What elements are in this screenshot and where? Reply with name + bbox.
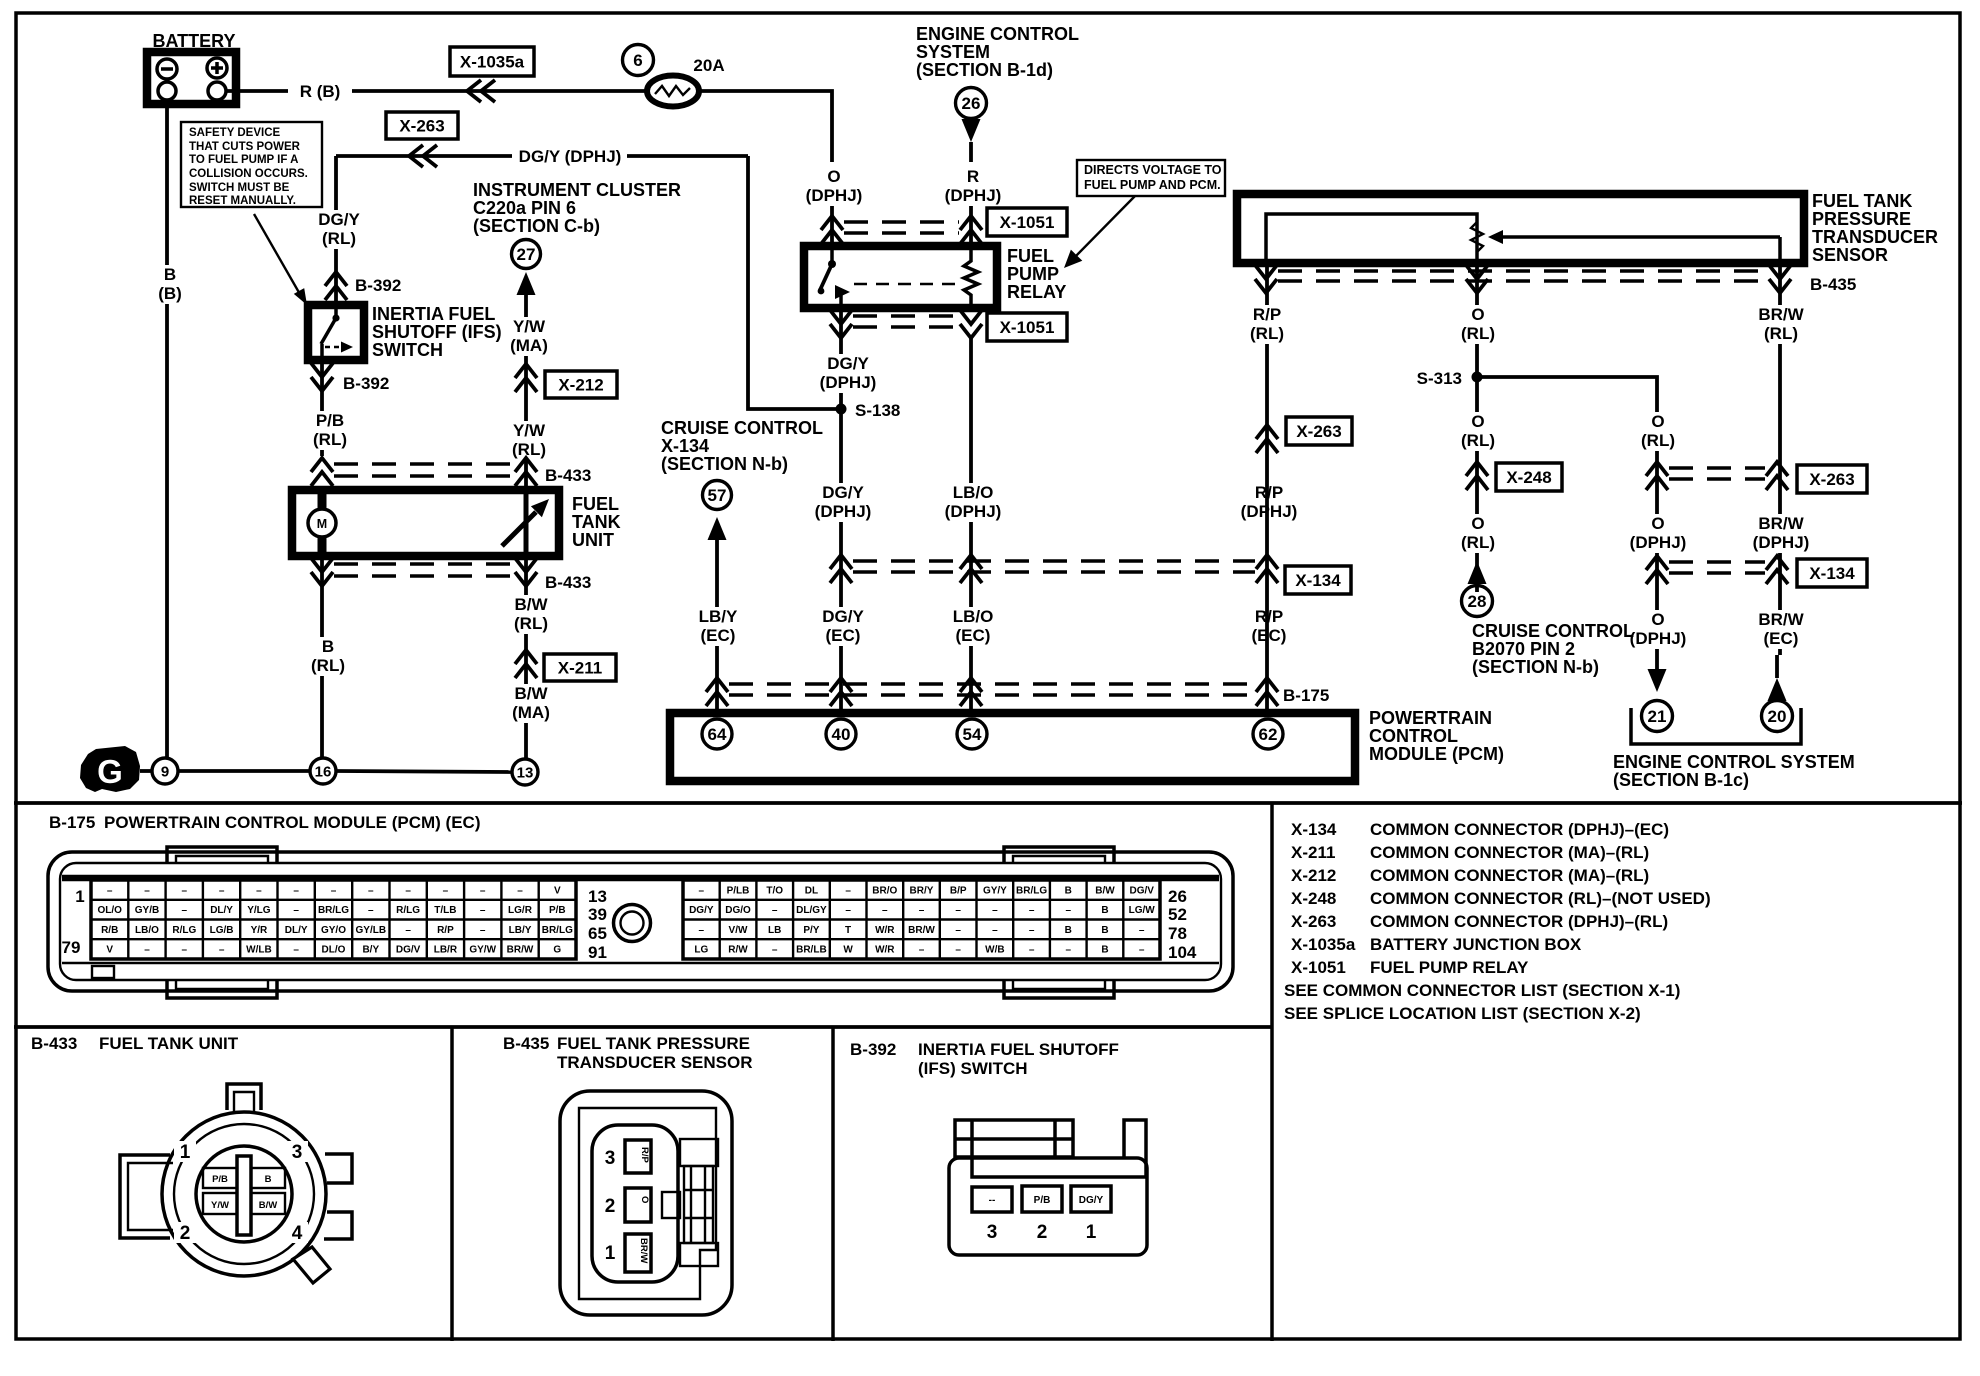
svg-text:–: – xyxy=(772,945,778,956)
svg-text:Y/W: Y/W xyxy=(513,421,546,440)
connector X-134 dashes xyxy=(853,559,1255,562)
svg-text:DL/GY: DL/GY xyxy=(796,905,827,916)
connector label X-212 xyxy=(545,371,617,398)
svg-text:B-435: B-435 xyxy=(503,1034,549,1053)
svg-text:X-134: X-134 xyxy=(1291,820,1337,839)
svg-text:(RL): (RL) xyxy=(1250,324,1284,343)
B-435 pin 3 R/P xyxy=(625,1140,651,1173)
svg-text:–: – xyxy=(845,885,851,896)
svg-text:Y/R: Y/R xyxy=(251,925,268,936)
svg-text:52: 52 xyxy=(1168,905,1187,924)
svg-text:W: W xyxy=(843,945,853,956)
svg-text:X-248: X-248 xyxy=(1291,889,1336,908)
label O (RL) col I xyxy=(1634,412,1681,451)
svg-text:X-263: X-263 xyxy=(1296,422,1341,441)
svg-text:B/Y: B/Y xyxy=(362,945,379,956)
svg-text:–: – xyxy=(1029,905,1035,916)
svg-text:X-1035a: X-1035a xyxy=(1291,935,1356,954)
svg-text:LB: LB xyxy=(768,925,781,936)
svg-text:B-433: B-433 xyxy=(31,1034,77,1053)
svg-text:1: 1 xyxy=(605,1243,616,1264)
connector B-433 upper dashes xyxy=(334,462,514,465)
svg-text:(DPHJ): (DPHJ) xyxy=(806,186,863,205)
svg-text:–: – xyxy=(293,945,299,956)
svg-text:3: 3 xyxy=(292,1142,303,1163)
svg-text:–: – xyxy=(992,925,998,936)
note directs voltage xyxy=(1077,160,1225,196)
connector label X-1051 upper xyxy=(987,208,1067,236)
svg-text:LB/O: LB/O xyxy=(953,607,994,626)
svg-text:G: G xyxy=(97,753,123,790)
svg-text:DG/Y (DPHJ): DG/Y (DPHJ) xyxy=(519,147,622,166)
svg-text:(DPHJ): (DPHJ) xyxy=(820,373,877,392)
connector X-263 right chevrons xyxy=(1646,462,1668,490)
connector label X-248 xyxy=(1496,463,1562,491)
PCM connector top tab right xyxy=(1004,847,1114,864)
svg-text:B/W: B/W xyxy=(514,595,548,614)
svg-text:B-392: B-392 xyxy=(343,374,389,393)
svg-text:DG/V: DG/V xyxy=(396,945,421,956)
svg-text:R/P: R/P xyxy=(1255,483,1283,502)
svg-text:RELAY: RELAY xyxy=(1007,282,1066,302)
svg-text:65: 65 xyxy=(588,924,607,943)
svg-text:Y/W: Y/W xyxy=(513,317,546,336)
svg-text:O: O xyxy=(1471,412,1484,431)
svg-text:FUEL PUMP RELAY: FUEL PUMP RELAY xyxy=(1370,958,1529,977)
svg-text:X-212: X-212 xyxy=(558,376,603,395)
arrow note to IFS switch xyxy=(254,214,301,296)
connector B-435 dashes xyxy=(1278,269,1766,272)
svg-text:(DPHJ): (DPHJ) xyxy=(1753,533,1810,552)
svg-text:SWITCH MUST BE: SWITCH MUST BE xyxy=(189,182,290,194)
svg-text:R/LG: R/LG xyxy=(396,905,420,916)
svg-text:13: 13 xyxy=(588,887,607,906)
label Y/W (MA) xyxy=(505,317,552,356)
svg-text:(EC): (EC) xyxy=(701,626,736,645)
svg-text:SHUTOFF (IFS): SHUTOFF (IFS) xyxy=(372,322,502,342)
svg-text:V/W: V/W xyxy=(729,925,748,936)
connector chevrons below relay xyxy=(830,310,852,338)
B-435 pin 1 BR/W xyxy=(625,1234,651,1272)
connector X-1051 lower dashes xyxy=(853,314,959,317)
svg-text:X-134: X-134 xyxy=(1809,564,1855,583)
svg-text:TANK: TANK xyxy=(572,512,621,532)
svg-text:LG/R: LG/R xyxy=(508,905,533,916)
label BR/W (EC) xyxy=(1757,610,1804,649)
svg-text:LG/B: LG/B xyxy=(210,925,234,936)
PCM connector small notch xyxy=(92,966,114,978)
svg-text:DG/Y: DG/Y xyxy=(827,354,869,373)
svg-text:(RL): (RL) xyxy=(1641,431,1675,450)
svg-text:--: -- xyxy=(989,1195,996,1206)
svg-text:V: V xyxy=(106,945,113,956)
arrow from 26 down xyxy=(962,119,981,142)
label DG/Y (EC) xyxy=(819,607,866,646)
B-433 right tab lower xyxy=(324,1212,352,1239)
svg-text:(EC): (EC) xyxy=(826,626,861,645)
svg-text:INSTRUMENT CLUSTER: INSTRUMENT CLUSTER xyxy=(473,180,681,200)
svg-text:B-175: B-175 xyxy=(49,813,95,832)
svg-text:MODULE (PCM): MODULE (PCM) xyxy=(1369,744,1504,764)
PCM connector bottom tab left xyxy=(167,980,277,998)
pin circle 57 xyxy=(703,481,732,510)
label DG/Y (DPHJ) upper xyxy=(814,354,881,393)
svg-text:SAFETY DEVICE: SAFETY DEVICE xyxy=(189,127,280,139)
connector label X-134 right xyxy=(1797,559,1867,587)
label P/B (RL) xyxy=(306,411,353,450)
svg-text:GY/LB: GY/LB xyxy=(356,925,387,936)
ground pin 9 xyxy=(152,758,178,784)
svg-text:–: – xyxy=(293,885,299,896)
inertia fuel shutoff (IFS) switch xyxy=(308,305,364,360)
svg-text:20A: 20A xyxy=(693,56,724,75)
svg-text:BR/W: BR/W xyxy=(638,1238,649,1263)
divider vertical B-435/B-392 xyxy=(831,1027,835,1341)
label LB/O (DPHJ) xyxy=(939,483,1006,522)
svg-text:B: B xyxy=(322,637,334,656)
wire R/P sensor to PCM xyxy=(1265,263,1269,713)
svg-text:–: – xyxy=(293,905,299,916)
svg-text:X-263: X-263 xyxy=(1809,470,1854,489)
connector X-134 right dashes xyxy=(1669,560,1765,563)
label O (DPHJ) col I low xyxy=(1624,610,1691,649)
svg-text:B: B xyxy=(1065,925,1072,936)
svg-text:SYSTEM: SYSTEM xyxy=(916,42,990,62)
ground bus wire 16-13 xyxy=(336,771,512,772)
fuel tank pressure transducer sensor box xyxy=(1237,194,1804,263)
svg-text:–: – xyxy=(955,905,961,916)
label R/P (EC) xyxy=(1245,607,1292,646)
svg-text:–: – xyxy=(144,885,150,896)
svg-text:64: 64 xyxy=(708,725,727,744)
connector B-433 lower chevrons + dashes xyxy=(311,558,333,586)
splice S-313 xyxy=(1472,372,1483,383)
fuel level sensor arrow xyxy=(502,512,536,546)
svg-text:RESET MANUALLY.: RESET MANUALLY. xyxy=(189,195,296,207)
pin circle 62 xyxy=(1253,719,1283,749)
svg-text:(DPHJ): (DPHJ) xyxy=(1630,533,1687,552)
svg-text:(RL): (RL) xyxy=(1461,533,1495,552)
svg-text:R/P: R/P xyxy=(639,1147,650,1164)
svg-text:X-134: X-134 xyxy=(661,436,709,456)
B-392 pin 3 xyxy=(972,1187,1012,1212)
ground G symbol xyxy=(80,746,140,792)
B-392 top latch xyxy=(955,1120,1073,1157)
connector B-392 lower chevrons xyxy=(320,360,324,456)
pin circle 64 xyxy=(702,719,732,749)
svg-text:28: 28 xyxy=(1468,592,1487,611)
wire R (B) battery to fuse xyxy=(226,89,647,93)
svg-text:P/B: P/B xyxy=(212,1174,228,1185)
svg-text:(RL): (RL) xyxy=(322,229,356,248)
connector B-392 upper chevrons xyxy=(325,272,347,300)
pin circle 54 xyxy=(957,719,987,749)
svg-text:LB/O: LB/O xyxy=(135,925,159,936)
B-435 pin 2 O xyxy=(625,1188,651,1222)
svg-text:B/W: B/W xyxy=(1095,885,1115,896)
svg-text:–: – xyxy=(1029,925,1035,936)
svg-text:LG: LG xyxy=(694,945,708,956)
wire G to 9 xyxy=(140,769,152,773)
svg-text:M: M xyxy=(317,517,327,531)
svg-text:B2070 PIN 2: B2070 PIN 2 xyxy=(1472,639,1575,659)
svg-text:P/B: P/B xyxy=(316,411,344,430)
svg-text:–: – xyxy=(256,885,262,896)
svg-text:–: – xyxy=(219,945,225,956)
svg-text:BR/W: BR/W xyxy=(1758,514,1804,533)
svg-text:T: T xyxy=(845,925,851,936)
svg-text:DG/V: DG/V xyxy=(1129,885,1154,896)
arrow to 27 xyxy=(517,272,536,295)
svg-text:–: – xyxy=(955,945,961,956)
svg-text:–: – xyxy=(480,885,486,896)
svg-text:(SECTION C-b): (SECTION C-b) xyxy=(473,216,600,236)
ground pin 16 xyxy=(310,758,336,784)
svg-text:(RL): (RL) xyxy=(311,656,345,675)
svg-text:DG/O: DG/O xyxy=(725,905,751,916)
svg-text:104: 104 xyxy=(1168,943,1197,962)
svg-text:(SECTION N-b): (SECTION N-b) xyxy=(661,454,788,474)
svg-text:DL/O: DL/O xyxy=(322,945,346,956)
connector B-175 dashes xyxy=(729,682,1255,685)
svg-text:COMMON CONNECTOR (DPHJ)–(RL): COMMON CONNECTOR (DPHJ)–(RL) xyxy=(1370,912,1668,931)
svg-text:62: 62 xyxy=(1259,725,1278,744)
svg-text:(RL): (RL) xyxy=(512,440,546,459)
svg-text:DG/Y: DG/Y xyxy=(689,905,714,916)
wire S-313 branch xyxy=(1477,377,1657,676)
svg-text:PRESSURE: PRESSURE xyxy=(1812,209,1911,229)
svg-text:(B): (B) xyxy=(158,284,182,303)
svg-text:O: O xyxy=(1471,514,1484,533)
arrow to 21 xyxy=(1648,669,1667,692)
svg-text:LB/Y: LB/Y xyxy=(699,607,738,626)
svg-text:–: – xyxy=(699,885,705,896)
svg-text:X-263: X-263 xyxy=(399,117,444,136)
svg-text:COMMON CONNECTOR (MA)–(RL): COMMON CONNECTOR (MA)–(RL) xyxy=(1370,843,1649,862)
connector label X-1051 lower xyxy=(987,313,1067,341)
svg-text:UNIT: UNIT xyxy=(572,530,614,550)
svg-text:3: 3 xyxy=(987,1222,998,1243)
svg-text:(SECTION B-1d): (SECTION B-1d) xyxy=(916,60,1053,80)
ground pin 13 xyxy=(512,759,538,785)
wire B (B) battery down xyxy=(165,104,169,758)
fuel tank unit xyxy=(292,490,559,556)
svg-text:COLLISION OCCURS.: COLLISION OCCURS. xyxy=(189,168,308,180)
svg-text:B: B xyxy=(1101,945,1108,956)
label O (DPHJ) col I xyxy=(1624,514,1691,553)
divider horizontal schematic/detail xyxy=(14,801,1962,805)
connector B-433 upper chevrons left xyxy=(311,458,333,486)
svg-text:(EC): (EC) xyxy=(1764,629,1799,648)
fuel pump relay box xyxy=(804,246,997,308)
svg-text:–: – xyxy=(219,885,225,896)
svg-text:FUEL: FUEL xyxy=(572,494,619,514)
connector X-1051 upper dashes xyxy=(844,220,959,223)
svg-text:–: – xyxy=(772,905,778,916)
svg-text:W/B: W/B xyxy=(985,945,1004,956)
connector X-134 right chevrons xyxy=(1646,556,1668,584)
wire DG/Y below relay xyxy=(839,310,843,713)
svg-text:BR/LG: BR/LG xyxy=(542,925,573,936)
svg-text:Y/LG: Y/LG xyxy=(247,905,271,916)
svg-text:–: – xyxy=(1066,905,1072,916)
svg-text:–: – xyxy=(480,905,486,916)
svg-text:ENGINE CONTROL SYSTEM: ENGINE CONTROL SYSTEM xyxy=(1613,752,1855,772)
label DG/Y (DPHJ) xyxy=(809,483,876,522)
PCM connector shell xyxy=(48,852,1233,991)
svg-text:DL/Y: DL/Y xyxy=(285,925,308,936)
svg-text:X-134: X-134 xyxy=(1295,571,1341,590)
svg-text:–: – xyxy=(955,925,961,936)
svg-text:(MA): (MA) xyxy=(510,336,548,355)
svg-text:THAT CUTS POWER: THAT CUTS POWER xyxy=(189,141,301,153)
svg-text:X-1051: X-1051 xyxy=(1000,318,1055,337)
svg-text:–: – xyxy=(405,925,411,936)
svg-text:INERTIA FUEL: INERTIA FUEL xyxy=(372,304,495,324)
svg-text:POWERTRAIN CONTROL MODULE (PCM: POWERTRAIN CONTROL MODULE (PCM) (EC) xyxy=(104,813,481,832)
svg-text:BATTERY JUNCTION BOX: BATTERY JUNCTION BOX xyxy=(1370,935,1582,954)
svg-text:FUEL TANK UNIT: FUEL TANK UNIT xyxy=(99,1034,239,1053)
powertrain control module box xyxy=(670,713,1355,781)
svg-text:20: 20 xyxy=(1768,707,1787,726)
B-392 right hook xyxy=(972,1120,1146,1177)
connector X-212 chevrons xyxy=(515,364,537,392)
pin circle 27 xyxy=(512,240,541,269)
svg-text:O: O xyxy=(639,1196,650,1203)
svg-text:COMMON CONNECTOR (MA)–(RL): COMMON CONNECTOR (MA)–(RL) xyxy=(1370,866,1649,885)
svg-text:(DPHJ): (DPHJ) xyxy=(945,186,1002,205)
svg-text:–: – xyxy=(882,905,888,916)
svg-text:39: 39 xyxy=(588,905,607,924)
svg-text:2: 2 xyxy=(180,1223,191,1244)
svg-text:OL/O: OL/O xyxy=(97,905,122,916)
svg-text:DL: DL xyxy=(805,885,818,896)
svg-text:(EC): (EC) xyxy=(1252,626,1287,645)
svg-text:BR/W: BR/W xyxy=(507,945,534,956)
svg-text:–: – xyxy=(182,905,188,916)
svg-text:GY/B: GY/B xyxy=(135,905,159,916)
svg-text:–: – xyxy=(699,925,705,936)
svg-text:26: 26 xyxy=(962,94,981,113)
B-435 latch detail xyxy=(680,1139,718,1166)
arrow note to relay xyxy=(1072,196,1135,260)
pin circle 20 xyxy=(1762,701,1793,732)
svg-text:X-1051: X-1051 xyxy=(1291,958,1346,977)
PCM connector band lines xyxy=(62,875,1219,882)
svg-text:(SECTION B-1c): (SECTION B-1c) xyxy=(1613,770,1749,790)
B-392 pin 1 DG/Y xyxy=(1071,1186,1111,1212)
svg-text:–: – xyxy=(1139,945,1145,956)
connector X-263 chevrons xyxy=(409,145,437,167)
svg-text:–: – xyxy=(480,925,486,936)
label LB/Y (EC) xyxy=(694,607,741,646)
svg-text:R/P: R/P xyxy=(1253,305,1281,324)
svg-text:(IFS) SWITCH: (IFS) SWITCH xyxy=(918,1059,1028,1078)
svg-text:G: G xyxy=(553,945,561,956)
PCM pin table left xyxy=(91,880,576,959)
svg-text:(EC): (EC) xyxy=(956,626,991,645)
svg-text:1: 1 xyxy=(180,1142,191,1163)
B-433 bottom-right notch xyxy=(293,1247,330,1283)
PCM connector bottom tab right xyxy=(1004,980,1114,998)
wire DG/Y branch to S-138 xyxy=(748,156,836,409)
svg-text:(RL): (RL) xyxy=(1764,324,1798,343)
connector label X-263 right xyxy=(1797,465,1867,493)
svg-text:B/W: B/W xyxy=(259,1200,278,1211)
svg-text:INERTIA FUEL SHUTOFF: INERTIA FUEL SHUTOFF xyxy=(918,1040,1119,1059)
label O (RL) sensor middle xyxy=(1475,265,1479,592)
pin circle 40 xyxy=(826,719,856,749)
bracket under 21/20 xyxy=(1631,708,1801,744)
svg-text:B: B xyxy=(1101,905,1108,916)
wire DG/Y (RL) xyxy=(334,156,338,305)
svg-text:X-1051: X-1051 xyxy=(1000,213,1055,232)
svg-text:BR/O: BR/O xyxy=(872,885,897,896)
svg-text:CRUISE CONTROL: CRUISE CONTROL xyxy=(1472,621,1634,641)
svg-text:B-433: B-433 xyxy=(545,573,591,592)
svg-text:1: 1 xyxy=(75,887,84,906)
svg-text:BR/LG: BR/LG xyxy=(1016,885,1047,896)
ground bus wire 9-16 xyxy=(178,769,310,773)
svg-text:TRANSDUCER: TRANSDUCER xyxy=(1812,227,1938,247)
svg-text:GY/W: GY/W xyxy=(469,945,496,956)
svg-text:FUEL: FUEL xyxy=(1007,246,1054,266)
connector X-211 chevrons xyxy=(515,650,537,678)
label BR/W (RL) xyxy=(1778,265,1782,655)
PCM pin table right xyxy=(683,880,1160,959)
svg-text:3: 3 xyxy=(605,1148,616,1169)
svg-text:–: – xyxy=(1066,945,1072,956)
svg-text:–: – xyxy=(182,945,188,956)
svg-text:1: 1 xyxy=(1086,1222,1097,1243)
svg-text:X-211: X-211 xyxy=(1291,843,1335,862)
label LB/O (EC) xyxy=(949,607,996,646)
wire DG/Y (DPHJ) horizontal xyxy=(336,154,748,158)
svg-text:P/Y: P/Y xyxy=(803,925,819,936)
svg-text:ENGINE CONTROL: ENGINE CONTROL xyxy=(916,24,1079,44)
label R/P (RL) xyxy=(1243,305,1290,344)
B-433 pin B xyxy=(251,1168,285,1188)
svg-text:57: 57 xyxy=(708,486,727,505)
wire LB/O below relay xyxy=(969,338,973,713)
pin circle 26 xyxy=(956,88,987,119)
svg-text:POWERTRAIN: POWERTRAIN xyxy=(1369,708,1492,728)
svg-text:21: 21 xyxy=(1648,707,1667,726)
svg-text:91: 91 xyxy=(588,943,607,962)
label R (DPHJ) xyxy=(939,167,1006,206)
connector X-263 right dashes xyxy=(1669,466,1765,469)
B-433 pin Y/W xyxy=(203,1193,237,1214)
svg-text:–: – xyxy=(107,885,113,896)
svg-text:(RL): (RL) xyxy=(514,614,548,633)
svg-text:T/LB: T/LB xyxy=(434,905,456,916)
svg-text:BR/Y: BR/Y xyxy=(910,885,934,896)
svg-text:W/LB: W/LB xyxy=(246,945,272,956)
svg-text:BR/W: BR/W xyxy=(1758,305,1804,324)
svg-text:B-392: B-392 xyxy=(355,276,401,295)
svg-text:–: – xyxy=(331,885,337,896)
svg-text:B-433: B-433 xyxy=(545,466,591,485)
svg-text:COMMON CONNECTOR (DPHJ)–(EC): COMMON CONNECTOR (DPHJ)–(EC) xyxy=(1370,820,1669,839)
svg-text:TRANSDUCER SENSOR: TRANSDUCER SENSOR xyxy=(557,1053,753,1072)
svg-text:–: – xyxy=(182,885,188,896)
svg-text:DL/Y: DL/Y xyxy=(210,905,233,916)
svg-text:PUMP: PUMP xyxy=(1007,264,1059,284)
svg-text:O: O xyxy=(827,167,840,186)
svg-text:R/B: R/B xyxy=(101,925,118,936)
svg-text:TO FUEL PUMP IF A: TO FUEL PUMP IF A xyxy=(189,154,298,166)
wire B/W column to ground 13 xyxy=(524,558,528,759)
